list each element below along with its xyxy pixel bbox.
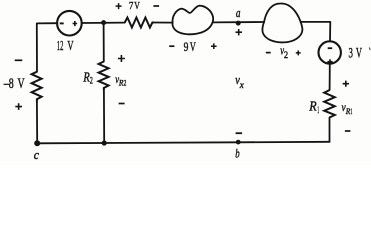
node c (corner dot, label) (34, 140, 41, 162)
svg-text:V: V (134, 0, 140, 12)
wire element (v2) to top-right corner down to 3V source (300, 22, 330, 41)
svg-text:1: 1 (317, 106, 319, 116)
unknown element (v2, bell shape) (262, 3, 302, 42)
resistor left (-8 V, vertical) (32, 72, 42, 102)
value label + 7 V - (116, 0, 160, 12)
svg-text:–8: –8 (3, 76, 14, 92)
svg-text:2: 2 (284, 51, 288, 61)
svg-text:9: 9 (184, 40, 189, 54)
wire bottom rail (c to b to bottom-right corner) (37, 142, 329, 144)
wire top node down to R2 (103, 23, 105, 62)
svg-text:2: 2 (90, 77, 93, 87)
wire R2 to bottom junction (103, 90, 105, 143)
wire 12V source to 7V resistor (through top node) (82, 22, 125, 24)
svg-text:x: x (239, 80, 244, 90)
wire top-left vertical + top segment to 12V source (37, 23, 57, 71)
svg-text:7: 7 (129, 0, 134, 12)
label R1 (308, 100, 319, 116)
svg-text:2: 2 (124, 77, 127, 87)
node (top junction at R2) (101, 20, 106, 25)
svg-text:V: V (67, 39, 73, 54)
node a (junction dot, label, + mark) (236, 6, 243, 35)
svg-text:b: b (235, 147, 239, 161)
unknown element (9 V, bean shape) (172, 6, 213, 35)
label vR1 with polarity marks (342, 81, 353, 131)
value label - v2 + (266, 44, 301, 61)
wire left resistor to corner c (36, 102, 38, 144)
node (bottom junction at R2) (102, 140, 107, 145)
stray mark (scan artifact) (368, 48, 371, 51)
resistor R1 (vertical) (324, 90, 335, 118)
svg-text:V: V (190, 40, 196, 54)
svg-text:3: 3 (349, 46, 353, 62)
voltage source 3 V (circle with - over +) (319, 41, 341, 64)
voltage source 12 V (circle with - +) (57, 11, 82, 36)
node b (dot, - mark, label) (235, 133, 242, 161)
svg-text:c: c (34, 148, 40, 162)
svg-text:12: 12 (57, 39, 64, 54)
resistor (7 V, horizontal) (125, 18, 154, 28)
label vx (235, 73, 244, 90)
resistor R2 (vertical) (99, 62, 109, 91)
label R2 (83, 70, 93, 86)
svg-text:1: 1 (351, 106, 353, 116)
wire 3V source to R1 (329, 64, 331, 90)
value label -8 V with polarity marks (3, 60, 25, 110)
wire element (9V) to element (v2) through node a (213, 21, 264, 23)
svg-text:R: R (308, 100, 317, 115)
svg-text:a: a (236, 6, 241, 20)
label vR2 with polarity marks (115, 55, 126, 104)
wire 7V resistor to element (9V) (154, 22, 173, 24)
wire R1 to bottom-right corner (329, 118, 331, 142)
value label - 9 V + (169, 40, 216, 54)
svg-text:V: V (18, 76, 25, 92)
svg-text:V: V (356, 46, 363, 62)
